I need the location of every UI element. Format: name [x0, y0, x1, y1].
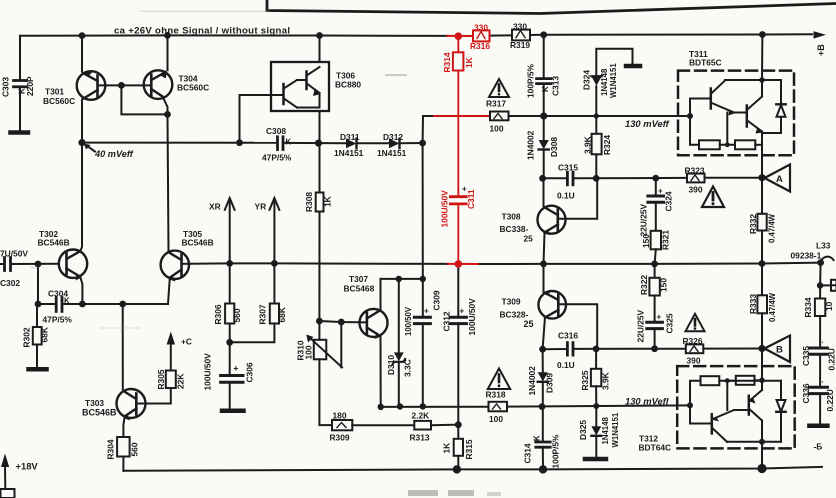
- resistor R316 330 (red): [473, 30, 490, 41]
- capacitor C306 100U/50V: [229, 342, 231, 374]
- capacitor C324 22U/25V: [655, 178, 657, 194]
- wire: D311 to D312: [357, 142, 389, 144]
- wire: R309 to R313: [352, 424, 414, 426]
- svg-text:C336: C336: [801, 383, 811, 403]
- svg-text:100: 100: [490, 124, 504, 134]
- svg-text:C309: C309: [432, 290, 442, 310]
- svg-text:40 mVeff: 40 mVeff: [94, 149, 134, 159]
- svg-text:D324: D324: [582, 70, 592, 90]
- diode D309 1N4002: [542, 349, 544, 372]
- capacitor C316 0.1U: [567, 343, 573, 356]
- svg-text:+18V: +18V: [16, 461, 39, 472]
- wire: T307 collector up: [380, 279, 382, 310]
- svg-text:2.2K: 2.2K: [412, 411, 430, 421]
- svg-text:BC560C: BC560C: [177, 83, 209, 93]
- wire: R310 bottom to R309: [319, 359, 332, 425]
- svg-text:C316: C316: [558, 331, 578, 341]
- connector arrow +B: [814, 31, 827, 38]
- wire: C308 to D311: [284, 142, 346, 144]
- capacitor C302 (input): [5, 258, 11, 271]
- svg-text:K: K: [64, 297, 70, 306]
- wire: R308 down through rail to R310: [318, 212, 320, 340]
- svg-text:180: 180: [333, 411, 347, 421]
- svg-text:D311: D311: [340, 132, 360, 142]
- wire: rail red highlighted segment at C311 node: [448, 263, 480, 265]
- wire: red drop R314 to C311: [457, 71, 459, 195]
- svg-text:R318: R318: [486, 390, 506, 400]
- svg-text:R317: R317: [486, 99, 506, 109]
- resistor R317 100: [490, 112, 509, 121]
- polarity plus marks on electrolytics: [234, 185, 824, 388]
- svg-text:150: 150: [659, 278, 669, 292]
- resistor R314 1K (red, vertical): [450, 36, 466, 264]
- transistor T301 BC560C: [77, 71, 106, 100]
- svg-text:BC560C: BC560C: [43, 96, 75, 106]
- capacitor C308 47P: [278, 137, 284, 150]
- svg-text:K: K: [541, 86, 550, 92]
- svg-text:BC5468: BC5468: [344, 284, 375, 294]
- svg-text:1N4002: 1N4002: [526, 130, 536, 160]
- wire: output node down to R334: [819, 263, 822, 286]
- 40mVeff pointer arrow: [87, 146, 96, 152]
- svg-text:R322: R322: [639, 275, 649, 295]
- svg-text:BC328-: BC328-: [500, 310, 529, 320]
- junction dot (red) at R316 node: [455, 32, 463, 40]
- svg-text:+B: +B: [816, 44, 826, 56]
- svg-text:C311: C311: [466, 189, 476, 209]
- svg-text:R304: R304: [106, 439, 116, 459]
- wire: R313 to R315 node: [431, 424, 458, 427]
- wire: emitter tail line: [63, 303, 169, 305]
- capacitor C336 0.22U: [809, 387, 827, 393]
- transistor T302 BC546B: [59, 250, 87, 278]
- wire: D312 to corner junction: [400, 142, 423, 144]
- svg-text:3.9K: 3.9K: [601, 372, 611, 390]
- svg-text:25: 25: [524, 234, 534, 244]
- wire: stub to edge component: [820, 284, 836, 286]
- svg-text:390: 390: [689, 185, 703, 195]
- ground bar below C336: [809, 424, 827, 429]
- svg-text:C312: C312: [442, 311, 452, 331]
- resistor R305 22K: [166, 371, 176, 389]
- transistor T309 BC328-25: [543, 264, 545, 292]
- svg-text:L33: L33: [816, 241, 831, 251]
- wire: T303 base to R305: [137, 388, 171, 404]
- wire: C316 to R326 node: [574, 348, 686, 350]
- svg-text:100P/5%: 100P/5%: [526, 63, 536, 98]
- resistors inside T312: [690, 381, 701, 406]
- ground bar below D325: [585, 457, 606, 462]
- resistor R326 390: [686, 344, 704, 353]
- wire: 40mVeff line (T301 collector to C308): [82, 142, 277, 144]
- wire: R317 to T311 input (130 mVeff line): [509, 115, 691, 117]
- svg-text:R332: R332: [748, 214, 758, 234]
- resistor R309 180: [332, 420, 352, 430]
- wire: R318 to T312 input: [507, 405, 690, 406]
- svg-text:W1N4151: W1N4151: [609, 63, 618, 98]
- warning triangle above R318: [488, 369, 510, 390]
- capacitor C325 22U/25V: [647, 322, 663, 328]
- svg-text:1K: 1K: [323, 196, 333, 207]
- wire: C303 drop from rail: [19, 36, 21, 80]
- resistor R333 0.47/4W: [761, 264, 763, 296]
- svg-text:1K: 1K: [442, 443, 452, 454]
- resistor R325 3.9K: [595, 349, 597, 369]
- wire: T305 base to feedback rail: [183, 263, 190, 265]
- svg-text:100U/50V: 100U/50V: [203, 353, 213, 391]
- warning triangle above R317: [489, 79, 509, 97]
- svg-text:D312: D312: [383, 132, 403, 142]
- wire: T312 collector out to bottom rail: [761, 442, 763, 469]
- ground bar below C303: [11, 130, 29, 135]
- wire: T301 emitter from rail: [81, 36, 83, 72]
- diode D308 1N4002: [543, 116, 545, 140]
- svg-text:100: 100: [304, 345, 314, 359]
- wire: x423 column through rails: [422, 143, 424, 279]
- capacitor C311 100U/50V (red): [450, 195, 466, 198]
- wire: C303 to ground: [19, 87, 21, 131]
- T306 internals: [271, 67, 320, 108]
- wire: T304 collector to mirror node: [164, 99, 168, 115]
- wire: input node down to C304: [37, 264, 39, 304]
- svg-text:BC880: BC880: [335, 80, 361, 90]
- svg-text:1N4151: 1N4151: [334, 148, 364, 158]
- svg-text:22U/25V: 22U/25V: [636, 309, 646, 342]
- svg-text:100U/50V: 100U/50V: [440, 190, 450, 228]
- resistor R322 150: [654, 264, 656, 278]
- transistor T308 BC338-25: [543, 178, 545, 206]
- svg-text:R309: R309: [330, 433, 350, 443]
- wire: T311 emitter out to node A: [761, 155, 763, 178]
- svg-text:BDT65C: BDT65C: [689, 58, 722, 68]
- svg-text:3.3C: 3.3C: [403, 359, 413, 377]
- svg-text:C303: C303: [1, 77, 11, 97]
- T312 internals: [761, 349, 763, 391]
- wire: top rail R316-R319 link: [490, 34, 513, 36]
- resistor R304 560: [117, 437, 130, 457]
- wire: top rail red highlighted segment: [447, 35, 473, 37]
- diode inside T311: [780, 80, 782, 104]
- svg-text:0.1U: 0.1U: [557, 360, 575, 370]
- resistor R307 68K: [273, 263, 275, 303]
- wire: R304 to bottom rail: [122, 457, 124, 471]
- svg-text:C325: C325: [665, 313, 675, 333]
- connector triangle A: [765, 165, 791, 192]
- wire: output rail to right edge: [480, 263, 821, 264]
- svg-text:R326: R326: [683, 336, 703, 346]
- wire: R326 to node B: [703, 348, 764, 350]
- svg-text:390: 390: [687, 356, 701, 366]
- svg-text:47P/5%: 47P/5%: [43, 315, 73, 325]
- svg-text:1N4151: 1N4151: [377, 148, 407, 158]
- svg-text:3.9K: 3.9K: [583, 136, 593, 154]
- wire: T302 collector up to 40mV line: [80, 143, 82, 251]
- diode D325 1N4148: [595, 406, 597, 426]
- svg-text:R321: R321: [661, 230, 671, 250]
- svg-text:R325: R325: [580, 370, 590, 390]
- svg-text:+C: +C: [181, 337, 192, 347]
- connector arrow XR: [229, 200, 231, 264]
- wire: R323 to node A: [705, 177, 765, 179]
- svg-text:22K: 22K: [176, 374, 186, 389]
- capacitor C309 100U/50V: [422, 279, 424, 316]
- wire: T306 emitter down to R308: [319, 111, 321, 193]
- wire: bottom supply rail: [123, 467, 822, 471]
- svg-text:BDT64C: BDT64C: [639, 443, 672, 453]
- wire: C315 to R323 node: [574, 177, 688, 179]
- svg-text:150: 150: [641, 234, 651, 248]
- svg-text:R307: R307: [258, 304, 268, 324]
- wire: T304 emitter from rail: [167, 35, 169, 70]
- svg-text:W1N4151: W1N4151: [611, 412, 620, 447]
- resistor R308 1K: [316, 193, 324, 212]
- svg-text:100U/50V: 100U/50V: [467, 298, 477, 336]
- svg-text:7U/50V: 7U/50V: [0, 249, 28, 259]
- svg-text:R319: R319: [510, 40, 530, 50]
- svg-text:XR: XR: [209, 202, 221, 212]
- svg-text:C335: C335: [801, 346, 811, 366]
- svg-text:0.47/4W: 0.47/4W: [768, 292, 777, 322]
- svg-text:09238-1: 09238-1: [791, 251, 822, 261]
- svg-text:0.22U: 0.22U: [825, 389, 835, 411]
- wire: collector link line: [381, 278, 423, 280]
- svg-text:BC546B: BC546B: [38, 238, 70, 248]
- wire: T302 emitter to tail node: [80, 277, 82, 304]
- svg-text:330: 330: [474, 23, 488, 33]
- wire: bias line to T307 base: [319, 321, 366, 322]
- svg-text:R324: R324: [602, 135, 612, 155]
- svg-text:22U/25V: 22U/25V: [639, 203, 649, 236]
- resistor R319 330: [512, 30, 530, 41]
- svg-text:+: +: [657, 313, 662, 322]
- resistor R315 1K: [457, 425, 459, 439]
- svg-text:D309: D309: [545, 373, 555, 393]
- svg-text:D308: D308: [549, 137, 559, 157]
- connector arrow +C: [167, 332, 175, 345]
- connector triangle B: [765, 336, 791, 363]
- svg-text:47P/5%: 47P/5%: [262, 153, 292, 163]
- svg-text:1N4148: 1N4148: [601, 417, 610, 445]
- svg-text:BC546B: BC546B: [182, 238, 214, 248]
- svg-text:560: 560: [130, 442, 140, 456]
- svg-text:100P/5%: 100P/5%: [551, 434, 561, 469]
- svg-text:+: +: [462, 185, 467, 194]
- svg-text:C314: C314: [523, 443, 533, 463]
- resistors inside T311: [690, 116, 699, 145]
- faint scan smudges: [30, 11, 501, 497]
- wire: T309 collector line to C316: [543, 348, 567, 350]
- capacitor C315 0.1U: [567, 172, 573, 185]
- transistor T307 BC546B: [360, 309, 388, 337]
- svg-text:10: 10: [824, 301, 834, 311]
- svg-text:1N4148: 1N4148: [600, 68, 609, 96]
- corner component at bottom-left (cut): [1, 489, 15, 498]
- capacitor C335 0.22U: [809, 348, 827, 354]
- coil L338 (cut at edge): [821, 257, 834, 263]
- ground bar below C306: [222, 409, 244, 414]
- svg-text:+: +: [658, 187, 663, 196]
- svg-text:130 mVefl: 130 mVefl: [625, 396, 669, 407]
- diode inside T312: [780, 381, 782, 400]
- transistor T305 BC546B (mirrored): [161, 251, 189, 279]
- svg-text:T307: T307: [349, 274, 368, 284]
- wire: tail up to T305 emitter: [168, 278, 170, 304]
- wire: base tie down-right to mirror node: [121, 85, 167, 114]
- Darlington module T306 BC880 box: [271, 62, 329, 111]
- capacitor C303: [14, 81, 27, 87]
- wire: feedback rail (T305 base to right): [190, 262, 449, 265]
- wire: mirror node down to T305 collector (crosses 40mV line): [168, 114, 169, 251]
- transistor T303 BC546B: [117, 389, 146, 418]
- wire: D312 node up-over to R317: [423, 116, 434, 143]
- wire: red highlighted segment into R317: [434, 115, 490, 117]
- svg-text:D325: D325: [578, 420, 588, 440]
- ground bar below R302: [29, 367, 47, 372]
- wire: T306 collector to rail: [319, 36, 321, 63]
- svg-text:100: 100: [489, 414, 503, 424]
- wire: lower 130mV drive line: [381, 406, 489, 408]
- power module T312 BDT64C dashed box: [677, 366, 795, 448]
- svg-text:C324: C324: [664, 191, 674, 211]
- resistor R318 100: [489, 402, 508, 412]
- svg-text:560: 560: [232, 308, 242, 322]
- diode D312 1N4151: [389, 139, 400, 149]
- wire: T303 emitter to R304: [123, 417, 124, 438]
- resistor R302 68K: [36, 304, 38, 327]
- resistor R332 0.47/4W: [761, 178, 763, 214]
- svg-text:-Б: -Б: [814, 442, 823, 452]
- wire: T301 collector down: [81, 100, 83, 143]
- svg-text:R305: R305: [156, 369, 166, 389]
- resistor R306 560: [229, 263, 231, 303]
- wire: R310 wiper tap to T307 base node: [340, 322, 342, 367]
- resistor R323 390: [687, 174, 705, 183]
- diode D324 1N4148 with stub terminal: [595, 86, 597, 116]
- svg-text:R308: R308: [304, 192, 314, 212]
- capacitor C313 100P/5%: [543, 35, 545, 78]
- diode D311 1N4151: [346, 139, 357, 149]
- svg-text:1N4002: 1N4002: [527, 366, 537, 396]
- svg-text:K: K: [18, 88, 27, 94]
- svg-text:330: 330: [513, 22, 527, 32]
- svg-text:R313: R313: [410, 433, 430, 443]
- svg-text:T308: T308: [502, 212, 521, 222]
- svg-text:D310: D310: [386, 355, 396, 375]
- svg-text:+: +: [234, 364, 239, 373]
- wire: VAS collector line to C315: [543, 177, 567, 179]
- svg-text:C315: C315: [558, 163, 578, 173]
- wire: top rail right to +B: [530, 33, 812, 36]
- resistor R324 3.9K: [595, 116, 597, 134]
- page-above box edge (cut off at top): [267, 0, 836, 14]
- svg-text:T301: T301: [45, 87, 64, 97]
- svg-text:R302: R302: [22, 327, 32, 347]
- T311 internals: [761, 35, 763, 81]
- warning triangle below R323: [702, 187, 724, 208]
- capacitor C314 100P/5%: [542, 407, 544, 441]
- connector arrow +18V: [1, 454, 9, 468]
- zener D310 3.3C: [398, 279, 400, 352]
- connector arrow YR: [273, 200, 275, 264]
- wire: +26V top rail: [20, 34, 447, 37]
- capacitor C312 100U/50V: [457, 264, 459, 316]
- svg-text:25: 25: [524, 319, 534, 329]
- warning triangle above R326: [686, 314, 705, 331]
- svg-text:R316: R316: [470, 41, 490, 51]
- svg-text:C306: C306: [245, 362, 255, 382]
- resistor R321 150: [651, 231, 661, 250]
- resistor R334 10: [819, 286, 821, 299]
- svg-text:0.47/4W: 0.47/4W: [768, 213, 777, 243]
- transistor T304 BC560C: [144, 70, 173, 99]
- resistor R313 2.2K: [414, 421, 431, 430]
- svg-text:100/50V: 100/50V: [404, 306, 413, 336]
- capacitor C304 47P: [56, 298, 62, 312]
- svg-text:K: K: [533, 435, 542, 441]
- svg-text:ca +26V ohne Signal / without: ca +26V ohne Signal / without signal: [114, 26, 290, 37]
- junction dot (red) at output rail: [455, 260, 463, 268]
- svg-text:68K: 68K: [40, 327, 50, 342]
- svg-text:C313: C313: [551, 76, 561, 96]
- svg-text:1K: 1K: [464, 57, 474, 68]
- wire: T307 emitter down: [380, 337, 382, 407]
- svg-text:C302: C302: [0, 278, 20, 288]
- wire: red drop C311 to output rail: [457, 205, 459, 264]
- svg-text:B: B: [776, 345, 783, 356]
- svg-text:R323: R323: [685, 166, 705, 176]
- power module T311 BDT65C dashed box: [678, 71, 794, 156]
- svg-text:BC546B: BC546B: [82, 408, 117, 418]
- svg-text:0.1U: 0.1U: [557, 191, 575, 201]
- wire: C302 to T302 base: [11, 263, 59, 265]
- svg-text:0.22U: 0.22U: [827, 348, 836, 370]
- svg-text:A: A: [776, 174, 783, 185]
- wire: R305 up to +C arrow: [170, 345, 172, 371]
- svg-text:R306: R306: [213, 304, 223, 324]
- wire: T306 base L-wire: [240, 95, 272, 143]
- svg-text:R315: R315: [464, 439, 474, 459]
- svg-text:R334: R334: [803, 297, 813, 317]
- svg-text:68K: 68K: [277, 307, 287, 322]
- svg-text:R333: R333: [748, 294, 758, 314]
- svg-text:130 mVeff: 130 mVeff: [625, 118, 670, 129]
- wire: diff tail down to T303 collector: [122, 304, 124, 389]
- trimmer R310 100: [314, 340, 327, 360]
- svg-text:BC338-: BC338-: [500, 224, 529, 234]
- svg-text:220P: 220P: [25, 76, 35, 96]
- svg-text:C308: C308: [266, 126, 286, 136]
- svg-text:+: +: [424, 307, 429, 316]
- svg-text:+: +: [460, 307, 465, 316]
- svg-text:R314: R314: [442, 52, 452, 72]
- svg-text:YR: YR: [255, 202, 267, 212]
- wire: T301-T304 base tie: [99, 84, 151, 86]
- svg-text:T309: T309: [502, 297, 521, 307]
- svg-text:T303: T303: [85, 398, 104, 408]
- svg-text:K: K: [286, 138, 292, 147]
